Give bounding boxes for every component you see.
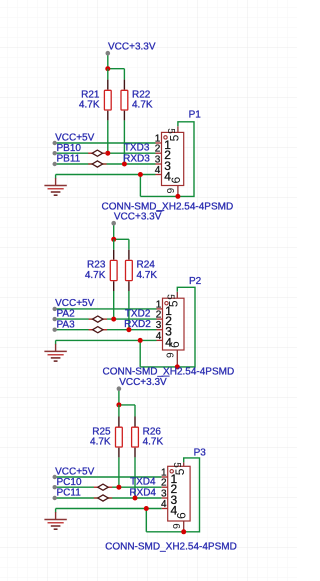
ground symbol (block 3)	[44, 509, 66, 530]
pin 4 stub P1	[156, 174, 162, 176]
svg-text:TXD2: TXD2	[125, 309, 151, 320]
wire 3.3V to R24 top (block 2)	[128, 239, 130, 249]
pin 5 stub P2	[176, 292, 178, 298]
net-tie diamond on TXD3 wire (block 1)	[88, 150, 106, 156]
net port VCC+5V (block 2)	[53, 298, 95, 311]
connector P1 CONN-SMD_XH2.54-4PSMD (block 1)	[162, 132, 184, 185]
net-tie diamond on RXD3 wire (block 1)	[88, 161, 106, 167]
svg-text:VCC+3.3V: VCC+3.3V	[108, 41, 156, 52]
net-tie diamond on RXD2 wire (block 2)	[89, 327, 107, 333]
svg-text:6: 6	[169, 177, 183, 184]
svg-text:6: 6	[164, 188, 175, 194]
svg-text:3: 3	[161, 488, 167, 499]
junction pin 6 / shield loop (block 3)	[181, 529, 186, 534]
wire R21 bottom to TXD3 net (block 1)	[107, 120, 109, 153]
pin 5 stub P1	[177, 126, 179, 132]
svg-text:4.7K: 4.7K	[137, 270, 158, 281]
svg-text:P2: P2	[189, 276, 202, 287]
wire 3.3V to R23 top (block 2)	[113, 239, 115, 249]
pin 2 stub P1	[156, 152, 162, 154]
svg-text:PB11: PB11	[57, 154, 81, 165]
wire GND branch down (block 1)	[139, 175, 141, 197]
junction pin 6 / shield loop (block 1)	[175, 194, 180, 199]
junction pin 6 / shield loop (block 2)	[175, 364, 180, 369]
svg-text:5: 5	[173, 468, 187, 475]
wire VCC+3.3V rail (block 2)	[113, 223, 115, 239]
svg-text:PA3: PA3	[57, 319, 76, 330]
net port PA3 (block 2)	[53, 319, 76, 332]
wire 3.3V to R25 top (block 3)	[118, 405, 120, 417]
pin-1 indicator circle P2	[165, 302, 168, 305]
wire R24 bottom to RXD2 net (block 2)	[128, 291, 130, 330]
svg-text:4: 4	[156, 331, 162, 342]
svg-text:4.7K: 4.7K	[90, 437, 111, 448]
wire GND row to pin 4 (block 3)	[56, 508, 162, 510]
svg-text:5: 5	[167, 300, 181, 307]
wire row PA2 (block 2)	[55, 318, 157, 320]
pin-1 indicator circle P3	[170, 470, 173, 473]
junction on 3.3V rail (block 3)	[116, 402, 121, 407]
net port PC10 (block 3)	[53, 477, 82, 490]
wire branch to right resistor (block 3)	[119, 404, 135, 406]
net port PC11 (block 3)	[53, 488, 82, 501]
wire 3.3V to R26 top (block 3)	[134, 405, 136, 417]
svg-text:PA2: PA2	[57, 309, 76, 320]
junction TXD3 / R21 (block 1)	[105, 151, 110, 156]
wire row VCC+5V (block 3)	[55, 476, 162, 478]
pin 3 stub P3	[162, 497, 168, 499]
svg-text:4.7K: 4.7K	[132, 100, 153, 111]
svg-text:VCC+3.3V: VCC+3.3V	[114, 211, 162, 222]
junction GND row / branch (block 2)	[138, 338, 143, 343]
ground symbol (block 2)	[44, 340, 66, 361]
wire branch to right resistor (block 1)	[108, 68, 125, 70]
svg-text:4.7K: 4.7K	[85, 270, 106, 281]
wire GND branch down (block 3)	[145, 509, 147, 532]
power pin dot VCC+3.3V (block 1)	[106, 51, 111, 56]
junction GND row / branch (block 1)	[138, 172, 143, 177]
junction RXD4 / R26 (block 3)	[133, 496, 138, 501]
svg-text:2: 2	[161, 478, 167, 489]
svg-text:VCC+3.3V: VCC+3.3V	[119, 377, 167, 388]
svg-text:5: 5	[171, 462, 182, 468]
pin 6 stub P1	[177, 186, 179, 197]
wire VCC+3.3V rail (block 3)	[118, 389, 120, 405]
svg-text:3: 3	[156, 320, 162, 331]
wire row PA3 (block 2)	[55, 329, 157, 331]
net port VCC+5V (block 3)	[53, 466, 95, 479]
junction on 3.3V rail (block 2)	[111, 237, 116, 242]
resistor R26 4.7K (block 3)	[132, 417, 164, 458]
wire shield loop pin5/pin6 to GND (block 1)	[140, 122, 194, 197]
pin-1 indicator circle P1	[164, 136, 167, 139]
net-tie diamond on TXD4 wire (block 3)	[94, 484, 112, 490]
net port PB11 (block 1)	[53, 154, 81, 167]
pin 2 stub P2	[157, 318, 163, 320]
junction RXD3 / R22 (block 1)	[122, 162, 127, 167]
wire 3.3V to R21 top (block 1)	[107, 69, 109, 80]
svg-text:5: 5	[167, 134, 181, 141]
svg-text:VCC+5V: VCC+5V	[55, 298, 95, 309]
pin 3 stub P1	[156, 163, 162, 165]
wire VCC+3.3V rail (block 1)	[107, 53, 109, 68]
svg-text:P1: P1	[189, 109, 202, 120]
wire R23 bottom to TXD2 net (block 2)	[113, 291, 115, 319]
wire row PC11 (block 3)	[55, 497, 162, 499]
svg-text:5: 5	[165, 128, 176, 134]
svg-text:4.7K: 4.7K	[79, 100, 100, 111]
wire R25 bottom to TXD4 net (block 3)	[118, 457, 120, 487]
svg-text:PC10: PC10	[57, 477, 82, 488]
wire row VCC+5V (block 1)	[55, 142, 156, 144]
ground symbol (block 1)	[44, 175, 66, 196]
pin 4 stub P2	[157, 339, 163, 341]
svg-text:2: 2	[156, 310, 162, 321]
svg-text:PB10: PB10	[57, 143, 82, 154]
wire shield loop pin5/pin6 to GND (block 2)	[140, 287, 195, 367]
wire GND row to pin 4 (block 2)	[56, 339, 157, 341]
svg-text:TXD4: TXD4	[130, 477, 156, 488]
junction RXD2 / R24 (block 2)	[126, 327, 131, 332]
junction TXD2 / R23 (block 2)	[111, 317, 116, 322]
net port VCC+5V (block 1)	[53, 132, 95, 145]
pin 1 stub P1	[156, 142, 162, 144]
wire shield loop pin5/pin6 to GND (block 3)	[146, 458, 199, 532]
svg-text:RXD2: RXD2	[124, 319, 151, 330]
wire row PB11 (block 1)	[55, 163, 156, 165]
junction GND row / branch (block 3)	[144, 506, 149, 511]
svg-text:RXD4: RXD4	[129, 488, 156, 499]
svg-text:P3: P3	[194, 448, 207, 459]
svg-text:PC11: PC11	[57, 488, 82, 499]
svg-text:4.7K: 4.7K	[143, 437, 164, 448]
svg-text:6: 6	[170, 523, 181, 529]
svg-text:2: 2	[155, 144, 161, 155]
svg-text:5: 5	[165, 294, 176, 300]
svg-text:6: 6	[168, 341, 182, 348]
svg-text:4: 4	[155, 165, 161, 176]
net port PB10 (block 1)	[53, 143, 82, 156]
svg-text:TXD3: TXD3	[124, 143, 150, 154]
resistor R23 4.7K (block 2)	[85, 250, 117, 291]
wire row VCC+5V (block 2)	[55, 308, 157, 310]
net-tie diamond on RXD4 wire (block 3)	[94, 495, 112, 501]
resistor R22 4.7K (block 1)	[121, 80, 153, 121]
svg-text:4: 4	[161, 499, 167, 510]
svg-text:6: 6	[164, 352, 175, 358]
connector P3 CONN-SMD_XH2.54-4PSMD (block 3)	[168, 466, 190, 521]
resistor R25 4.7K (block 3)	[90, 417, 122, 458]
wire 3.3V to R22 top (block 1)	[123, 69, 125, 80]
wire row PB10 (block 1)	[55, 152, 156, 154]
wire branch to right resistor (block 2)	[114, 238, 129, 240]
pin 1 stub P2	[157, 308, 163, 310]
resistor R24 4.7K (block 2)	[126, 250, 158, 291]
pin 1 stub P3	[162, 476, 168, 478]
resistor R21 4.7K (block 1)	[79, 80, 111, 121]
pin 2 stub P3	[162, 486, 168, 488]
pin 6 stub P2	[176, 350, 178, 367]
pin 3 stub P2	[157, 329, 163, 331]
net port PA2 (block 2)	[53, 309, 76, 322]
svg-text:RXD3: RXD3	[123, 154, 150, 165]
connector P2 CONN-SMD_XH2.54-4PSMD (block 2)	[163, 298, 185, 350]
pin 4 stub P3	[162, 508, 168, 510]
svg-text:CONN-SMD_XH2.54-4PSMD: CONN-SMD_XH2.54-4PSMD	[105, 541, 237, 552]
power pin dot VCC+3.3V (block 2)	[111, 221, 116, 226]
svg-text:3: 3	[155, 154, 161, 165]
wire R26 bottom to RXD4 net (block 3)	[134, 457, 136, 498]
svg-text:VCC+5V: VCC+5V	[55, 132, 95, 143]
junction TXD4 / R25 (block 3)	[116, 485, 121, 490]
pin 5 stub P3	[183, 462, 185, 466]
svg-text:VCC+5V: VCC+5V	[55, 466, 95, 477]
wire row PC10 (block 3)	[55, 486, 162, 488]
pin 6 stub P3	[183, 521, 185, 532]
junction on 3.3V rail (block 1)	[105, 66, 110, 71]
wire GND branch down (block 2)	[139, 340, 141, 367]
wire GND row to pin 4 (block 1)	[56, 174, 156, 176]
power pin dot VCC+3.3V (block 3)	[117, 386, 122, 391]
svg-text:6: 6	[175, 512, 189, 519]
wire R22 bottom to RXD3 net (block 1)	[123, 120, 125, 164]
net-tie diamond on TXD2 wire (block 2)	[89, 316, 107, 322]
